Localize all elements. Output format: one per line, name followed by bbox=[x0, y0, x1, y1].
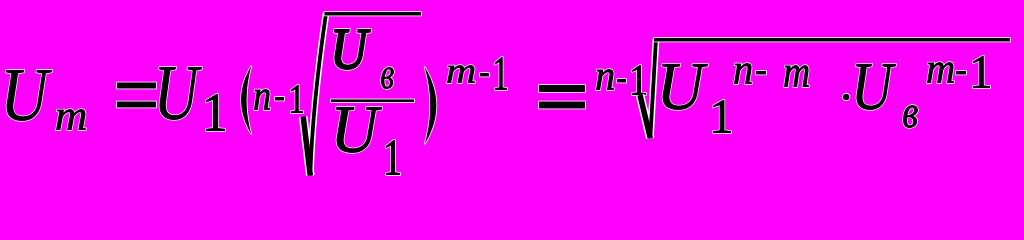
equals sign 1 top bar bbox=[117, 83, 156, 89]
opening parenthesis bbox=[241, 66, 252, 135]
subscript m bbox=[56, 109, 85, 129]
final exponent m bbox=[927, 62, 953, 82]
exponent hyphen (n-m) bbox=[756, 71, 766, 75]
variable U1 bbox=[159, 67, 201, 119]
radicand subscript в bbox=[903, 105, 917, 127]
exponent m bbox=[447, 65, 474, 82]
closing parenthesis bbox=[425, 67, 437, 145]
exponent hyphen bbox=[480, 73, 489, 77]
exponent m (right) bbox=[784, 65, 808, 86]
root index n (right) bbox=[596, 69, 613, 89]
radical sign 1 bbox=[303, 14, 326, 176]
radicand U1 bbox=[662, 64, 707, 109]
multiplication dot bbox=[843, 94, 850, 101]
radical sign 2 bbox=[640, 39, 656, 138]
radicand subscript 1 bbox=[713, 100, 730, 132]
numerator subscript в bbox=[381, 67, 393, 88]
equals sign 2 bottom bar bbox=[539, 102, 585, 109]
exponent 1 bbox=[495, 57, 506, 89]
root index hyphen bbox=[275, 97, 284, 101]
radical 1 vinculum bbox=[325, 12, 422, 16]
final exponent hyphen bbox=[956, 71, 966, 75]
fraction bar bbox=[331, 99, 414, 102]
radical 2 vinculum bbox=[654, 38, 1010, 42]
denominator subscript 1 bbox=[386, 140, 399, 174]
variable U (left side) bbox=[6, 70, 51, 121]
final exponent 1 bbox=[973, 56, 989, 87]
equals sign 1 bottom bar bbox=[117, 102, 156, 108]
subscript 1 of U1 bbox=[206, 94, 224, 130]
denominator U bbox=[337, 108, 382, 153]
radicand Uв bbox=[856, 64, 895, 109]
root index hyphen (right) bbox=[617, 79, 626, 83]
equals sign 2 top bar bbox=[539, 85, 585, 92]
exponent n (right) bbox=[734, 63, 751, 83]
root index n bbox=[254, 89, 269, 109]
numerator U bbox=[335, 30, 370, 69]
root index 1 bbox=[291, 85, 302, 112]
root index 1 (right) bbox=[632, 65, 645, 94]
